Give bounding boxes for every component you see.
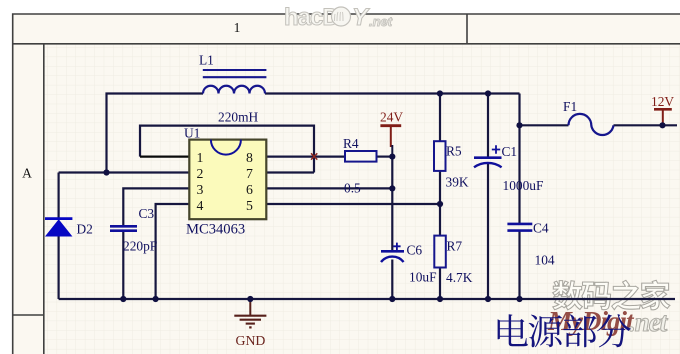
svg-text:A: A [22,166,32,181]
svg-text:0.5: 0.5 [344,180,361,195]
capacitor C1 (polarized) [474,145,502,167]
svg-text:1000uF: 1000uF [503,178,544,193]
wire: ground rail [59,298,675,300]
wire: C4 bottom to ground rail [518,231,520,299]
svg-text:R5: R5 [446,144,462,159]
watermark hacDIY.net logo [284,4,393,31]
capacitor C4 [507,224,532,231]
power symbol 12V [654,109,672,125]
svg-text:F1: F1 [563,99,577,114]
wire: pin 5 run to R5/R7 node [266,203,440,205]
pin numbers 1-8 [197,150,254,213]
wire: pin 1 stub [140,156,189,158]
svg-text:4: 4 [197,198,204,213]
svg-text:.net: .net [369,14,393,29]
svg-text:39K: 39K [446,175,469,190]
wire: pin 8 to R4 [266,156,345,158]
wire: fuse row from branch to F1 [520,124,569,126]
power symbol 24V [380,126,401,147]
svg-text:C3: C3 [139,206,155,221]
svg-text:C6: C6 [407,243,423,258]
svg-text:.net: .net [629,307,669,337]
wire: pin 2 run to diode branch [59,171,190,173]
svg-text:D2: D2 [77,222,93,237]
svg-text:8: 8 [246,150,253,165]
svg-text:C1: C1 [502,144,518,159]
diode D2 [45,219,72,236]
svg-text:2: 2 [197,166,204,181]
wire: top rail L1 right to C4 branch corner [265,92,520,94]
svg-text:5: 5 [246,198,253,213]
svg-text:3: 3 [197,182,204,197]
capacitor C6 (polarized) [381,243,404,262]
svg-text:1: 1 [197,150,204,165]
wire: R7 bottom to rail [439,268,441,300]
wire: C3 bottom to rail [122,232,124,300]
wire: R4 right to 24V junction [377,156,393,158]
wire: pin 7 tie to pin 8 [266,171,314,173]
wire: R5 top lead from top rail [439,94,441,142]
svg-text:10uF: 10uF [409,270,437,285]
svg-text:220mH: 220mH [218,110,259,125]
wire: R5 bottom to pin5 node [439,171,441,204]
wire: 24V junction down through pin6 node to C6 [391,157,393,251]
svg-text:12V: 12V [651,94,674,109]
svg-text:1: 1 [234,20,241,35]
op-amp / converter IC U1 MC34063 [189,140,266,220]
wire: top rail from L1 left down to pin2 junction [107,94,204,173]
capacitor C3 [110,226,137,230]
title text 电源部分 [498,314,631,347]
wire: R7 top lead [439,204,441,236]
resistor R7 [434,236,446,268]
svg-text:6: 6 [246,182,253,197]
ground symbol GND [234,299,266,327]
wire: vertical C4 branch from top rail down to C4 top [518,94,520,224]
wire: C1 bottom to rail [487,164,489,300]
svg-text:GND: GND [236,333,266,348]
wire: C6 bottom to rail [391,260,393,300]
no-connect cross marker [311,153,317,159]
svg-text:U1: U1 [184,126,200,141]
svg-text:R4: R4 [343,136,359,151]
wire: feedback loop pin1 to pins 7/8 [140,126,314,173]
svg-text:4.7K: 4.7K [446,270,473,285]
resistor R4 [345,151,377,162]
wire: C1 branch from top rail [487,94,489,157]
svg-text:L1: L1 [199,53,214,68]
svg-text:R7: R7 [447,239,463,254]
svg-text:Y: Y [352,4,370,31]
svg-text:220pF: 220pF [123,239,157,254]
svg-text:MC34063: MC34063 [186,222,245,238]
svg-text:C4: C4 [533,221,549,236]
wire: diode branch vertical lower to rail [57,236,59,300]
wire: pin 6 run (0.5 net) [266,187,392,189]
resistor R5 [434,141,446,171]
fuse F1 [569,114,614,135]
wire: diode branch vertical upper [57,173,59,220]
svg-text:7: 7 [246,166,253,181]
svg-text:24V: 24V [380,110,403,125]
svg-text:104: 104 [535,253,555,268]
watermark 数码之家 [553,280,670,310]
wire: pin 4 down to rail [156,204,190,299]
wire: F1 to 12V and right edge [614,124,678,126]
wire: pin 3 to C3 [123,188,189,225]
inductor L1 [203,70,267,94]
